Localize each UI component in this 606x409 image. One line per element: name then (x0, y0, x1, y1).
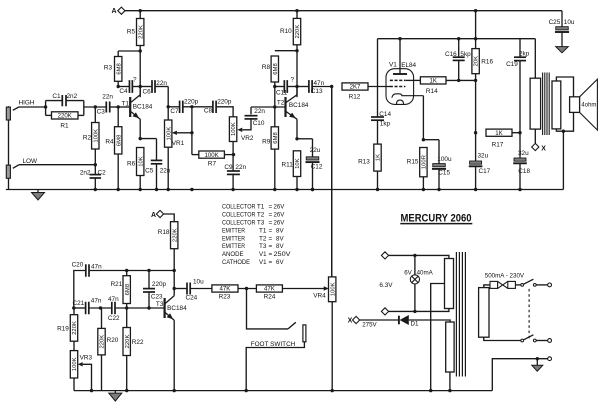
svg-text:?: ? (291, 76, 295, 83)
svg-text:BC184: BC184 (167, 305, 187, 312)
svg-text:V1: V1 (259, 259, 267, 266)
svg-text:C6: C6 (143, 89, 152, 96)
svg-text:R7: R7 (208, 161, 217, 168)
svg-text:=: = (269, 243, 273, 250)
svg-text:100u: 100u (437, 156, 452, 163)
svg-text:VR4: VR4 (313, 293, 326, 300)
svg-text:T2: T2 (259, 235, 267, 242)
svg-text:VR2: VR2 (241, 135, 254, 142)
svg-text:47n: 47n (108, 296, 119, 303)
svg-text:T3: T3 (257, 220, 265, 227)
svg-text:C10: C10 (253, 120, 265, 127)
svg-text:ANODE: ANODE (222, 251, 244, 258)
svg-text:VR1: VR1 (172, 140, 185, 147)
svg-text:=: = (269, 220, 273, 227)
svg-text:26V: 26V (274, 212, 285, 219)
svg-text:10u: 10u (564, 19, 575, 26)
svg-text:R13: R13 (358, 159, 370, 166)
svg-text:5kp: 5kp (460, 51, 471, 58)
svg-text:47K: 47K (220, 286, 231, 293)
svg-text:EMITTER: EMITTER (222, 227, 245, 234)
svg-text:R1: R1 (60, 123, 69, 130)
svg-text:220p: 220p (184, 98, 199, 105)
svg-text:2n2: 2n2 (80, 170, 91, 177)
svg-text:EMITTER: EMITTER (222, 243, 245, 250)
svg-text:R20: R20 (107, 337, 119, 344)
svg-text:500mA - 230V: 500mA - 230V (485, 272, 525, 279)
svg-text:?: ? (133, 76, 137, 83)
svg-text:X: X (541, 145, 546, 152)
svg-text:A: A (111, 8, 116, 15)
svg-text:6M8: 6M8 (125, 283, 131, 295)
svg-text:T2: T2 (257, 212, 265, 219)
svg-text:X: X (348, 318, 353, 325)
svg-text:220K: 220K (58, 113, 72, 120)
svg-text:=: = (269, 259, 273, 266)
svg-text:26V: 26V (274, 220, 285, 227)
svg-text:=: = (269, 204, 273, 211)
svg-text:C12: C12 (311, 163, 323, 170)
svg-text:22n: 22n (160, 168, 171, 175)
svg-text:20K: 20K (474, 56, 480, 67)
svg-text:C15: C15 (438, 170, 450, 177)
svg-text:EL84: EL84 (401, 62, 416, 69)
svg-text:1K: 1K (376, 154, 382, 161)
svg-text:BC184: BC184 (133, 103, 153, 110)
svg-text:C20: C20 (72, 262, 84, 269)
svg-text:4ohm: 4ohm (581, 102, 596, 108)
svg-text:220K: 220K (72, 321, 78, 335)
svg-text:C19: C19 (506, 61, 518, 68)
svg-text:2n2: 2n2 (67, 93, 78, 100)
svg-text:R3: R3 (104, 65, 113, 72)
svg-text:R12: R12 (349, 93, 361, 100)
svg-text:=: = (269, 227, 273, 234)
svg-text:2K7: 2K7 (350, 84, 361, 91)
svg-text:C16: C16 (445, 51, 457, 58)
svg-text:BC184: BC184 (289, 102, 309, 109)
svg-text:2kp: 2kp (519, 51, 530, 58)
svg-text:=: = (269, 212, 273, 219)
svg-text:100K: 100K (204, 152, 218, 159)
svg-text:T2: T2 (277, 100, 285, 107)
svg-text:=: = (269, 251, 273, 258)
svg-text:1K: 1K (495, 130, 502, 137)
svg-text:R9: R9 (262, 139, 271, 146)
svg-text:1K: 1K (429, 78, 436, 85)
svg-text:100R: 100R (422, 155, 428, 169)
svg-text:=: = (269, 235, 273, 242)
svg-text:R11: R11 (282, 162, 294, 169)
svg-text:R16: R16 (481, 58, 493, 65)
svg-text:C9: C9 (224, 164, 233, 171)
svg-text:220K: 220K (295, 25, 301, 39)
svg-text:C25: C25 (549, 19, 561, 26)
svg-text:100K: 100K (166, 127, 172, 141)
svg-text:10u: 10u (193, 279, 204, 286)
svg-text:COLLECTOR: COLLECTOR (222, 204, 256, 211)
svg-text:10K: 10K (295, 158, 301, 169)
svg-text:220p: 220p (217, 98, 232, 105)
svg-text:T1: T1 (122, 100, 130, 107)
svg-text:8V: 8V (276, 235, 284, 242)
svg-text:R6: R6 (127, 161, 136, 168)
svg-text:C1: C1 (52, 93, 61, 100)
svg-text:220K: 220K (125, 335, 131, 349)
svg-text:100K: 100K (330, 282, 336, 296)
svg-text:220K: 220K (172, 228, 178, 242)
svg-text:R22: R22 (132, 339, 144, 346)
svg-text:R4: R4 (105, 139, 114, 146)
svg-text:100K: 100K (72, 357, 78, 371)
svg-text:C21: C21 (72, 300, 84, 307)
svg-text:C11: C11 (276, 89, 288, 96)
svg-text:100K: 100K (93, 129, 99, 143)
svg-text:26V: 26V (274, 204, 285, 211)
svg-text:22u: 22u (310, 147, 321, 154)
svg-text:47n: 47n (91, 264, 102, 271)
svg-text:COLLECTOR: COLLECTOR (222, 220, 256, 227)
svg-text:22n: 22n (235, 164, 246, 171)
svg-text:250V: 250V (274, 251, 292, 258)
svg-text:EMITTER: EMITTER (222, 235, 245, 242)
svg-text:47K: 47K (264, 286, 275, 293)
svg-text:V1: V1 (389, 62, 397, 69)
svg-text:R14: R14 (426, 88, 438, 95)
svg-text:22n: 22n (254, 108, 265, 115)
svg-text:T1: T1 (257, 204, 265, 211)
svg-text:47n: 47n (91, 298, 102, 305)
svg-text:CATHODE: CATHODE (222, 259, 250, 266)
svg-text:32u: 32u (518, 150, 529, 157)
svg-text:C3: C3 (97, 108, 106, 115)
svg-text:6.3V: 6.3V (379, 282, 393, 289)
svg-text:C7: C7 (170, 108, 179, 115)
svg-text:R24: R24 (264, 294, 276, 301)
svg-text:8V: 8V (276, 227, 284, 234)
svg-text:220p: 220p (152, 281, 167, 288)
svg-text:R2: R2 (83, 135, 92, 142)
svg-text:R23: R23 (219, 294, 231, 301)
svg-text:C23: C23 (151, 293, 163, 300)
svg-text:T1: T1 (259, 227, 267, 234)
svg-text:10K: 10K (138, 156, 144, 167)
svg-text:220K: 220K (100, 335, 106, 349)
svg-text:C24: C24 (186, 295, 198, 302)
svg-text:6V: 6V (404, 270, 412, 277)
svg-text:C4: C4 (119, 88, 128, 95)
svg-text:C17: C17 (479, 168, 491, 175)
svg-text:275V: 275V (362, 322, 377, 329)
svg-text:A: A (151, 212, 156, 219)
svg-text:32u: 32u (478, 153, 489, 160)
svg-text:22n: 22n (102, 94, 113, 101)
svg-text:C18: C18 (518, 168, 530, 175)
svg-text:6V: 6V (276, 259, 284, 266)
svg-text:C13: C13 (311, 88, 323, 95)
svg-text:R18: R18 (158, 229, 170, 236)
svg-text:40mA: 40mA (417, 270, 434, 277)
svg-text:R19: R19 (57, 326, 69, 333)
svg-text:R8: R8 (262, 64, 271, 71)
svg-text:COLLECTOR: COLLECTOR (222, 212, 256, 219)
svg-text:6M8: 6M8 (116, 62, 122, 74)
svg-text:1kp: 1kp (380, 121, 391, 128)
svg-text:C8: C8 (204, 108, 213, 115)
svg-text:T3: T3 (156, 301, 164, 308)
svg-text:V1: V1 (259, 251, 267, 258)
svg-text:C5: C5 (145, 168, 154, 175)
svg-text:R10: R10 (280, 28, 292, 35)
svg-text:8V: 8V (276, 243, 284, 250)
svg-text:VR3: VR3 (80, 355, 93, 362)
svg-text:FOOT SWITCH: FOOT SWITCH (251, 341, 296, 348)
svg-text:R5: R5 (127, 29, 136, 36)
svg-text:6M8: 6M8 (116, 134, 122, 146)
svg-text:R21: R21 (111, 281, 123, 288)
svg-text:100K: 100K (231, 122, 237, 136)
svg-text:C14: C14 (379, 111, 391, 118)
svg-text:R15: R15 (407, 159, 419, 166)
svg-text:6M8: 6M8 (273, 132, 279, 144)
svg-text:6M8: 6M8 (273, 63, 279, 75)
svg-text:C22: C22 (108, 315, 120, 322)
svg-text:D1: D1 (411, 320, 419, 327)
svg-text:220K: 220K (138, 25, 144, 39)
svg-text:T3: T3 (259, 243, 267, 250)
svg-text:HIGH: HIGH (19, 100, 35, 107)
svg-text:R17: R17 (492, 142, 504, 149)
svg-text:C2: C2 (98, 170, 107, 177)
